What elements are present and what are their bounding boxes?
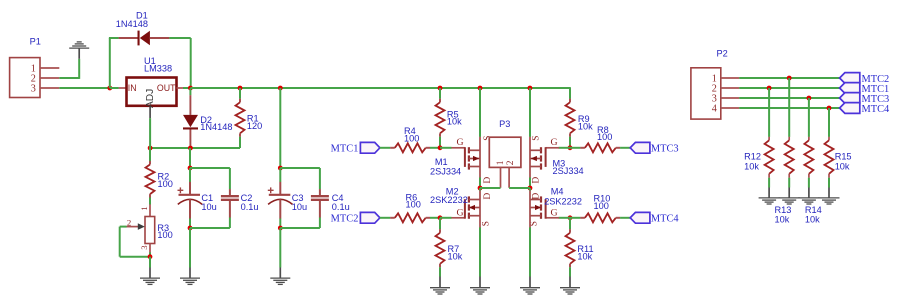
net label MTC2 <box>840 73 890 85</box>
pin 3 of P2 <box>721 97 740 99</box>
junction (D2 / ADJ rail) <box>188 146 193 151</box>
wire midpoint left <box>480 187 501 189</box>
capacitor C2 <box>221 168 239 228</box>
wire R12 drop <box>768 88 770 137</box>
wire wiper to pin3 <box>120 256 150 258</box>
wire C2 top link <box>190 167 230 169</box>
junction (M1.S) <box>478 86 483 91</box>
junction (M3.D / M4.D / P3.2) <box>528 186 533 191</box>
junction (M3.S) <box>528 86 533 91</box>
svg-text:G: G <box>551 137 558 148</box>
svg-text:100: 100 <box>406 200 421 210</box>
ground (R12) <box>759 188 780 205</box>
connector P3 <box>489 137 521 167</box>
svg-text:0.1u: 0.1u <box>332 202 350 212</box>
net label MTC4 <box>630 212 679 224</box>
svg-text:100: 100 <box>404 134 419 144</box>
svg-text:120: 120 <box>247 121 262 131</box>
wire rail corner to R9 <box>569 87 571 99</box>
transistor M3 2SJ334 <box>530 147 559 169</box>
pin 2 of P1 <box>40 77 59 79</box>
wire <box>78 59 80 79</box>
wire M3 drain down <box>529 178 531 189</box>
svg-text:4: 4 <box>712 104 717 115</box>
diode D2 1N4148 <box>183 95 198 146</box>
svg-text:G: G <box>551 208 558 219</box>
resistor R11 <box>566 218 575 277</box>
pin OUT stub <box>177 87 184 89</box>
svg-text:MTC4: MTC4 <box>651 214 680 225</box>
pin 4 of P2 <box>721 107 740 109</box>
connector P2 <box>691 68 721 119</box>
svg-text:100: 100 <box>597 132 612 142</box>
wire R15 drop <box>828 108 830 137</box>
svg-text:10k: 10k <box>447 116 462 126</box>
wire P2.1 to MTC2 <box>739 77 839 79</box>
svg-text:G: G <box>457 208 464 219</box>
svg-text:2SJ334: 2SJ334 <box>553 166 584 176</box>
wire <box>59 77 79 79</box>
svg-text:R12: R12 <box>744 152 761 162</box>
wire pin3 <box>149 252 151 256</box>
svg-text:S: S <box>481 221 491 226</box>
resistor R1 <box>236 88 245 148</box>
ground (inverted, at P1) <box>69 42 89 59</box>
junction (M2 gate) <box>438 215 443 220</box>
svg-text:P2: P2 <box>717 48 728 58</box>
svg-text:1N4148: 1N4148 <box>200 122 232 132</box>
wire up to D1 <box>109 38 111 88</box>
wire ADJ down <box>149 118 151 148</box>
ground (C3/C4) <box>270 228 290 284</box>
wire M3 source up <box>529 88 531 137</box>
wire <box>183 87 190 89</box>
ground (R14) <box>798 188 819 205</box>
svg-text:0.1u: 0.1u <box>241 202 259 212</box>
svg-text:2SK2232: 2SK2232 <box>544 196 582 206</box>
svg-text:R13: R13 <box>775 205 792 215</box>
ground (M2.S) <box>470 227 490 294</box>
junction (C3) <box>278 86 283 91</box>
svg-text:M4: M4 <box>551 187 564 197</box>
resistor R5 <box>436 88 445 148</box>
diode D1 1N4148 <box>119 31 170 46</box>
wire M1 source up <box>479 88 481 137</box>
resistor R15 <box>825 137 834 188</box>
wire R14 drop <box>808 98 810 137</box>
wire gate M4 <box>559 217 570 219</box>
resistor R6 <box>380 213 440 222</box>
wire <box>189 146 191 148</box>
ground (C1/C2) <box>180 228 200 284</box>
wire OUT column <box>189 148 191 168</box>
wire main output rail <box>190 87 570 89</box>
M2 S/D vertical <box>479 191 481 228</box>
wire gate M2 <box>440 217 452 219</box>
wire R13 drop <box>788 78 790 137</box>
wire gate M3 <box>559 147 570 149</box>
capacitor C4 <box>311 168 329 228</box>
wire C4 top link <box>280 167 320 169</box>
wire wiper <box>120 226 127 228</box>
svg-text:ADJ: ADJ <box>145 89 156 108</box>
svg-text:1: 1 <box>496 160 506 165</box>
resistor R9 <box>566 88 575 148</box>
junction (R13) <box>787 76 792 81</box>
net label MTC3 <box>840 93 890 105</box>
wire C4 bottom link <box>280 227 320 229</box>
junction (U1.OUT / D1 / D2 / rail) <box>188 86 193 91</box>
junction (M4 gate) <box>568 215 573 220</box>
net label MTC3 <box>630 142 678 154</box>
ground (R13) <box>779 188 800 205</box>
resistor R12 <box>765 137 774 188</box>
junction (P1.3 / D1 / U1.IN) <box>107 86 112 91</box>
svg-text:R15: R15 <box>835 152 852 162</box>
wire midpoint right <box>509 187 530 189</box>
svg-text:R14: R14 <box>805 205 822 215</box>
ground (M4.S) <box>520 227 540 294</box>
svg-text:10k: 10k <box>835 162 850 172</box>
net label MTC1 <box>331 142 380 154</box>
resistor R2 <box>146 148 155 205</box>
wire down from D1 <box>190 38 192 88</box>
wire rail down to C3 <box>279 88 281 168</box>
svg-text:100: 100 <box>157 230 172 240</box>
svg-text:2: 2 <box>506 160 516 165</box>
wire P2.4 to MTC4 <box>739 107 839 109</box>
svg-text:10k: 10k <box>775 215 790 225</box>
svg-text:M1: M1 <box>435 157 448 167</box>
M1 S/D vertical <box>479 137 481 178</box>
svg-text:P3: P3 <box>499 119 510 129</box>
junction (M3 gate) <box>568 145 573 150</box>
M3 S/D vertical <box>529 137 531 178</box>
pin 1 of P3 <box>500 167 502 188</box>
svg-text:D: D <box>483 193 493 200</box>
ground (R11) <box>560 276 580 294</box>
pin ADJ stub <box>149 107 151 118</box>
wire M4 drain up <box>529 188 531 191</box>
svg-text:LM338: LM338 <box>144 63 172 73</box>
svg-text:10u: 10u <box>201 202 216 212</box>
wire <box>109 37 119 39</box>
pin IN stub <box>119 87 127 89</box>
connector P1 <box>10 58 40 98</box>
pin 3 of P1 <box>40 87 59 89</box>
M4 S/D vertical <box>529 191 531 228</box>
ground (R3) <box>140 257 160 285</box>
transistor M4 2SK2232 <box>530 196 559 218</box>
svg-text:3: 3 <box>139 245 149 250</box>
potentiometer R3 <box>126 204 154 252</box>
svg-text:G: G <box>457 137 464 148</box>
svg-text:MTC4: MTC4 <box>862 104 891 115</box>
junction (C3 / C4 link) <box>278 166 283 171</box>
svg-text:10u: 10u <box>292 202 307 212</box>
wire M2 drain up <box>479 188 481 191</box>
wire ADJ rail <box>150 147 240 149</box>
wire to U1.IN <box>110 87 119 89</box>
pin 1 of P1 <box>40 67 59 69</box>
svg-text:10k: 10k <box>744 162 759 172</box>
svg-text:100: 100 <box>158 179 173 189</box>
svg-text:100: 100 <box>594 201 609 211</box>
junction (R1) <box>238 86 243 91</box>
pin 2 of P3 <box>508 167 510 188</box>
capacitor C3 <box>268 168 293 228</box>
regulator U1 LM338 <box>127 78 177 106</box>
ground (R15) <box>819 188 840 205</box>
svg-text:1N4148: 1N4148 <box>116 19 148 29</box>
resistor R4 <box>380 143 440 152</box>
net label MTC1 <box>840 83 890 95</box>
capacitor C1 <box>178 168 203 228</box>
svg-text:MTC2: MTC2 <box>331 214 359 225</box>
wire gate M1 <box>440 147 452 149</box>
transistor M1 2SJ334 <box>451 147 480 169</box>
resistor R8 <box>570 143 630 152</box>
net label MTC4 <box>840 103 890 115</box>
svg-text:OUT: OUT <box>157 83 176 93</box>
wire to D2 <box>189 88 191 95</box>
svg-text:IN: IN <box>128 83 137 93</box>
junction (M1 gate) <box>438 145 443 150</box>
svg-text:MTC1: MTC1 <box>331 144 359 155</box>
svg-text:10k: 10k <box>578 122 593 132</box>
svg-text:D: D <box>531 193 541 200</box>
pin 2 of P2 <box>721 87 740 89</box>
wire <box>169 37 190 39</box>
svg-text:2SJ334: 2SJ334 <box>430 167 461 177</box>
junction (R3.3 / wiper) <box>148 254 153 259</box>
svg-text:S: S <box>531 136 541 141</box>
junction (ADJ / R2) <box>148 146 153 151</box>
svg-text:10k: 10k <box>448 252 463 262</box>
wire P2.2 to MTC1 <box>739 87 839 89</box>
transistor M2 2SK2232 <box>451 196 480 218</box>
junction (M1.D / M2.D / P3.1) <box>478 186 483 191</box>
pin 1 of P2 <box>721 77 740 79</box>
junction (R12) <box>767 86 772 91</box>
wire wiper down <box>119 227 121 257</box>
net label MTC2 <box>331 212 380 224</box>
wire C2 bottom link <box>190 227 230 229</box>
svg-text:MTC3: MTC3 <box>651 144 679 155</box>
wire M1 drain down <box>479 178 481 189</box>
resistor R10 <box>570 213 630 222</box>
wire P2.3 to MTC3 <box>739 97 839 99</box>
resistor R7 <box>436 218 445 277</box>
resistor R14 <box>804 137 813 188</box>
wire <box>59 87 110 89</box>
svg-text:1: 1 <box>139 206 149 210</box>
svg-text:3: 3 <box>31 84 36 95</box>
junction (C3 / C4 bottom link) <box>278 226 283 231</box>
junction (R15) <box>827 106 832 111</box>
svg-text:D: D <box>531 177 541 184</box>
svg-text:10k: 10k <box>577 252 592 262</box>
resistor R13 <box>785 137 794 188</box>
ground (R7) <box>430 276 450 294</box>
svg-text:P1: P1 <box>30 37 41 47</box>
svg-text:D: D <box>483 177 493 184</box>
svg-text:10k: 10k <box>805 215 820 225</box>
junction (C1 / C2 link) <box>188 166 193 171</box>
junction (C1 / C2 bottom link) <box>188 226 193 231</box>
svg-text:S: S <box>530 221 540 226</box>
junction (R5) <box>438 86 443 91</box>
svg-text:2: 2 <box>127 217 131 227</box>
junction (R14) <box>807 96 812 101</box>
svg-text:2SK2232: 2SK2232 <box>430 195 468 205</box>
